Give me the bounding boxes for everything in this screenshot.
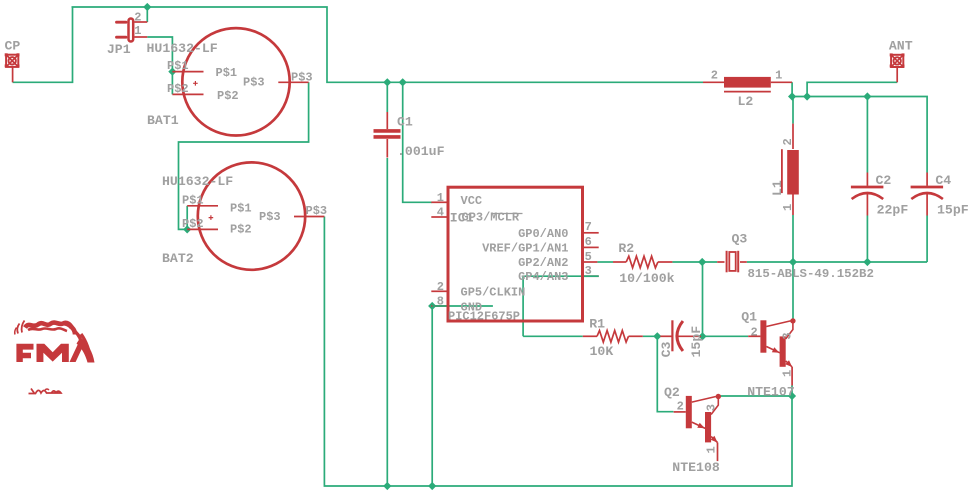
svg-text:1: 1 (781, 204, 795, 211)
svg-text:L1: L1 (770, 180, 785, 196)
svg-text:P$1: P$1 (230, 202, 252, 216)
svg-text:P$3: P$3 (243, 75, 265, 89)
svg-text:P$1: P$1 (216, 66, 238, 80)
svg-text:4: 4 (437, 206, 444, 220)
svg-text:3: 3 (585, 264, 592, 278)
svg-text:15pF: 15pF (937, 203, 969, 218)
svg-text:P$2: P$2 (182, 217, 204, 231)
svg-text:NTE107: NTE107 (747, 384, 795, 399)
svg-text:GP2/AN2: GP2/AN2 (518, 256, 568, 270)
svg-text:Q3: Q3 (732, 231, 748, 246)
svg-text:3: 3 (780, 332, 794, 339)
svg-text:L2: L2 (738, 94, 754, 109)
svg-text:PIC12F675P: PIC12F675P (448, 310, 520, 324)
svg-text:VCC: VCC (461, 194, 483, 208)
svg-text:GP3/MCLR: GP3/MCLR (462, 211, 520, 225)
svg-text:HU1632-LF: HU1632-LF (147, 41, 218, 56)
svg-text:10K: 10K (590, 344, 614, 359)
svg-text:NTE108: NTE108 (672, 460, 720, 475)
svg-text:GP5/CLKIN: GP5/CLKIN (461, 286, 526, 300)
svg-text:5: 5 (585, 250, 592, 264)
svg-text:GP4/AN3: GP4/AN3 (518, 270, 568, 284)
svg-text:.001uF: .001uF (397, 144, 445, 159)
svg-text:HU1632-LF: HU1632-LF (162, 174, 233, 189)
svg-text:C4: C4 (935, 173, 951, 188)
svg-text:P$3: P$3 (259, 210, 281, 224)
svg-text:VREF/GP1/AN1: VREF/GP1/AN1 (482, 241, 568, 255)
svg-text:10/100k: 10/100k (619, 271, 674, 286)
svg-text:JP1: JP1 (107, 42, 131, 57)
svg-text:R2: R2 (618, 241, 634, 256)
svg-text:22pF: 22pF (877, 203, 909, 218)
svg-text:Q1: Q1 (741, 310, 757, 325)
svg-text:P$1: P$1 (182, 193, 204, 207)
svg-text:6: 6 (585, 235, 592, 249)
svg-text:3: 3 (705, 404, 719, 411)
svg-text:P$2: P$2 (230, 222, 252, 236)
svg-text:1: 1 (780, 370, 794, 377)
svg-text:C1: C1 (397, 115, 413, 130)
svg-text:1: 1 (775, 69, 782, 83)
svg-text:2: 2 (134, 10, 141, 24)
svg-text:C3: C3 (659, 341, 674, 357)
svg-text:P$2: P$2 (167, 82, 189, 96)
svg-text:2: 2 (437, 280, 444, 294)
svg-text:8: 8 (437, 295, 444, 309)
svg-text:7: 7 (585, 220, 592, 234)
svg-text:BAT2: BAT2 (162, 251, 194, 266)
svg-text:2: 2 (677, 400, 684, 414)
svg-text:C2: C2 (876, 173, 892, 188)
svg-text:R1: R1 (589, 317, 605, 332)
svg-text:P$1: P$1 (167, 59, 189, 73)
svg-text:CP: CP (5, 38, 21, 53)
svg-text:815-ABLS-49.152B2: 815-ABLS-49.152B2 (748, 267, 874, 281)
svg-text:2: 2 (711, 69, 718, 83)
svg-text:1: 1 (437, 191, 444, 205)
svg-text:1: 1 (134, 24, 141, 38)
svg-text:P$3: P$3 (291, 70, 313, 84)
svg-text:P$3: P$3 (306, 204, 328, 218)
svg-text:Q2: Q2 (664, 385, 680, 400)
svg-text:GP0/AN0: GP0/AN0 (518, 227, 568, 241)
svg-text:P$2: P$2 (217, 89, 239, 103)
svg-text:1: 1 (705, 446, 719, 453)
svg-text:2: 2 (750, 326, 757, 340)
svg-text:ANT: ANT (889, 39, 913, 54)
svg-text:15pF: 15pF (689, 326, 704, 358)
svg-text:2: 2 (781, 138, 795, 145)
svg-text:BAT1: BAT1 (147, 113, 179, 128)
